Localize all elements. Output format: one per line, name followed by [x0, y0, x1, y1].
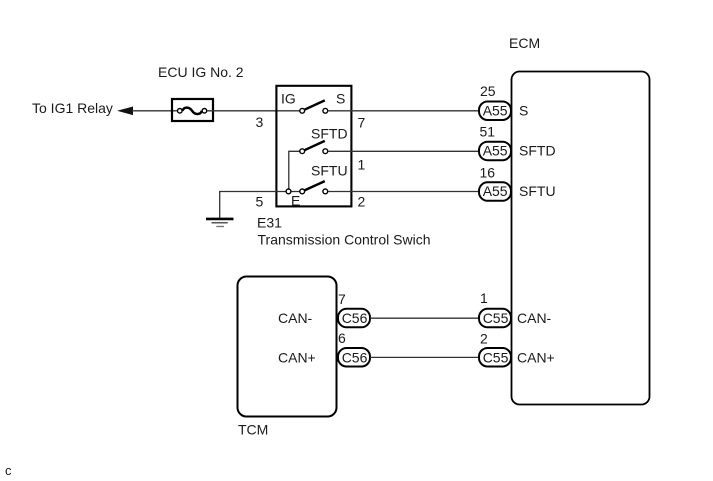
- svg-text:5: 5: [256, 194, 264, 210]
- wire SFTD to A55: [328, 150, 479, 152]
- svg-text:25: 25: [480, 83, 496, 99]
- svg-text:CAN+: CAN+: [517, 349, 555, 365]
- connector C56 CAN+: [338, 348, 370, 367]
- switch IG-S: [300, 100, 328, 113]
- svg-text:C55: C55: [483, 310, 509, 326]
- connector A55 SFTU: [479, 182, 511, 201]
- connector C55 CAN-: [479, 309, 511, 328]
- svg-text:2: 2: [358, 194, 366, 210]
- svg-text:ECM: ECM: [509, 35, 540, 51]
- connector A55 SFTD: [479, 142, 511, 161]
- wire ground to E: [220, 192, 286, 219]
- svg-text:S: S: [519, 103, 528, 119]
- svg-text:2: 2: [480, 331, 488, 347]
- svg-text:51: 51: [480, 124, 496, 140]
- svg-text:C56: C56: [342, 310, 368, 326]
- svg-text:c: c: [5, 463, 12, 478]
- ground: [206, 219, 234, 227]
- svg-text:1: 1: [480, 290, 488, 306]
- switch SFTD: [300, 141, 328, 154]
- svg-text:CAN+: CAN+: [278, 349, 316, 365]
- svg-text:SFTU: SFTU: [311, 163, 348, 179]
- svg-text:S: S: [336, 91, 345, 107]
- wire CAN+ C56 to C55: [370, 356, 479, 358]
- wire E node to switch: [291, 191, 300, 193]
- wire CAN- C56 to C55: [370, 317, 479, 319]
- svg-text:CAN-: CAN-: [517, 310, 552, 326]
- svg-text:A55: A55: [483, 143, 508, 159]
- svg-text:7: 7: [358, 115, 366, 131]
- wire S to A55: [328, 110, 479, 112]
- wire fuse to switch box IG: [207, 110, 300, 112]
- wire arrow to fuse: [132, 110, 178, 112]
- svg-text:7: 7: [338, 291, 346, 307]
- svg-text:To IG1 Relay: To IG1 Relay: [32, 100, 113, 116]
- svg-text:ECU IG No. 2: ECU IG No. 2: [158, 64, 244, 80]
- svg-text:SFTU: SFTU: [519, 183, 556, 199]
- svg-text:SFTD: SFTD: [311, 126, 348, 142]
- svg-text:CAN-: CAN-: [278, 310, 313, 326]
- svg-text:SFTD: SFTD: [519, 143, 556, 159]
- wire SFTU to A55: [328, 191, 479, 193]
- switch box E31: [276, 86, 351, 207]
- arrow to IG1 relay: [117, 107, 133, 116]
- fuse ECU IG No. 2: [172, 99, 213, 121]
- svg-text:A55: A55: [483, 103, 508, 119]
- wire SFTD stub and riser to E: [289, 151, 300, 189]
- svg-text:C56: C56: [342, 349, 368, 365]
- svg-text:16: 16: [480, 165, 496, 181]
- svg-text:TCM: TCM: [238, 422, 268, 438]
- svg-text:A55: A55: [483, 183, 508, 199]
- TCM box: [238, 277, 337, 417]
- svg-text:IG: IG: [281, 91, 296, 107]
- connector A55 S: [479, 102, 511, 121]
- svg-text:1: 1: [358, 157, 366, 173]
- svg-text:3: 3: [256, 114, 264, 130]
- svg-text:6: 6: [338, 330, 346, 346]
- connector C56 CAN-: [338, 309, 370, 328]
- switch SFTU: [286, 181, 328, 194]
- svg-text:C55: C55: [483, 349, 509, 365]
- svg-text:E: E: [291, 193, 300, 209]
- svg-text:E31: E31: [257, 215, 282, 231]
- svg-text:Transmission Control Swich: Transmission Control Swich: [258, 232, 431, 248]
- connector C55 CAN+: [479, 348, 511, 367]
- ECM box: [512, 72, 650, 405]
